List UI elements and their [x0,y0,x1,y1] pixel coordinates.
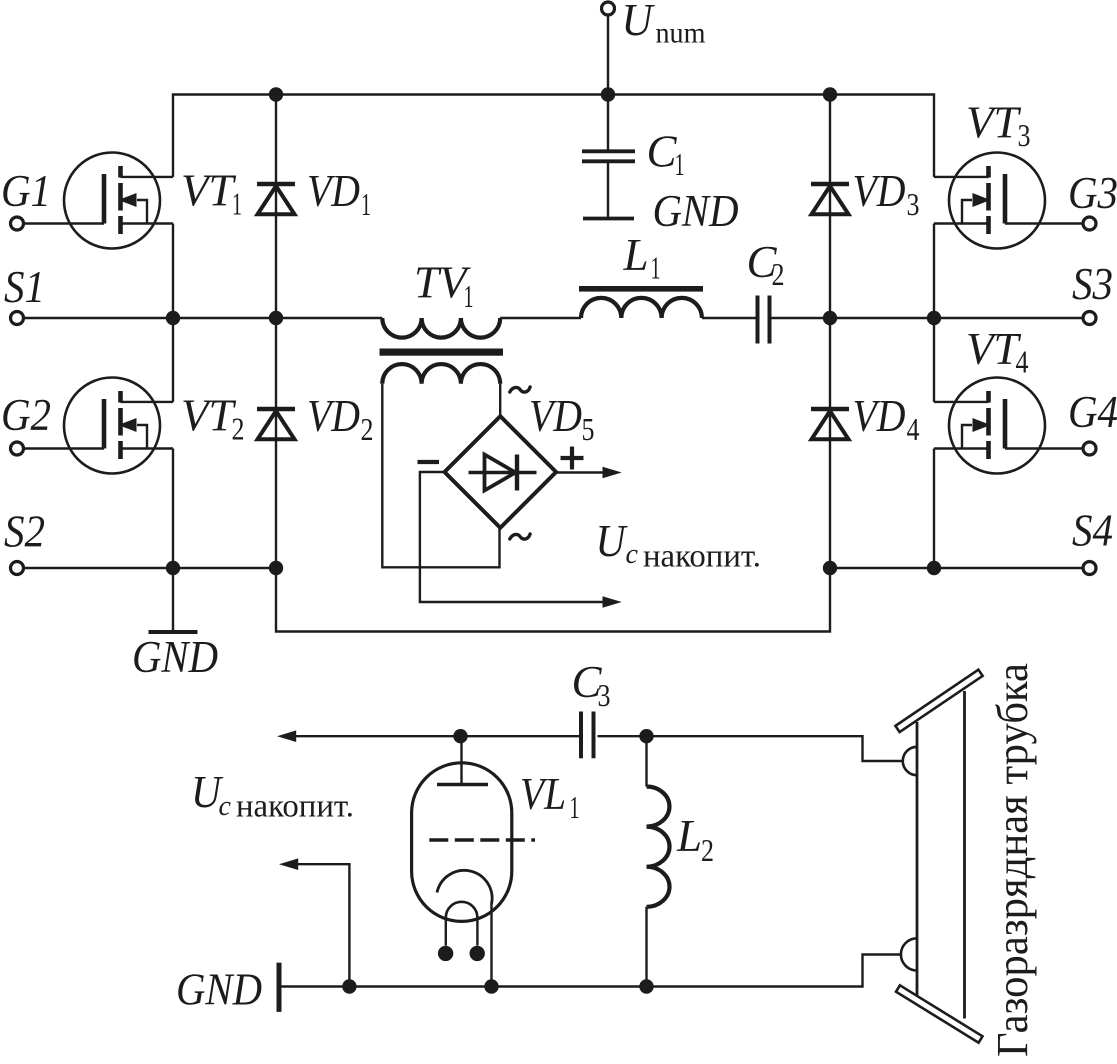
transistor VT4 [934,378,1045,474]
terminal S4 [1083,562,1096,575]
svg-text:VT: VT [181,166,236,216]
node S1 rail / VT1 [166,311,180,325]
label C2 [747,237,785,292]
svg-text:1: 1 [651,250,661,286]
wire G1 lead [23,222,104,224]
label VT4 [966,324,1029,380]
wire VT4 drain riser [933,318,935,402]
svg-text:2: 2 [361,411,374,447]
label VT2 [181,391,245,447]
svg-text:G2: G2 [1,390,51,440]
node S2 rail / VD2 [269,561,283,575]
label G2 [1,390,51,440]
svg-text:TV: TV [414,258,471,308]
label gas discharge tube [988,663,1037,1057]
transistor VT1 [64,153,173,249]
node return drop [342,979,356,993]
node S2 rail / VT2 [166,561,180,575]
svg-text:1: 1 [570,789,580,825]
transistor VT3 [934,153,1045,249]
wire VT1 drain drop is in top rail; source drop [172,224,174,319]
gas discharge tube [895,670,982,1043]
svg-text:2: 2 [772,256,785,292]
terminal U_num [602,2,615,15]
wire GND rail to tube bottom [281,955,900,987]
label S1 [4,262,45,312]
wire minus output arrow [420,472,622,608]
label L1 [623,230,661,286]
svg-text:VD: VD [853,391,906,441]
ground bar (left) [149,630,198,634]
svg-text:3: 3 [907,186,920,222]
svg-text:2: 2 [701,832,714,868]
wire GND stub [172,568,174,631]
terminal S3 [1083,312,1096,325]
svg-text:1: 1 [361,186,371,222]
wire VT4 source drop [933,449,935,569]
label S2 [4,507,45,557]
svg-text:4: 4 [907,411,920,447]
label TV1 [414,258,474,315]
label VD5 [529,391,595,447]
wire top rail with end drops [173,95,934,177]
label C3 [572,657,611,713]
wire C1 bottom lead [607,163,609,217]
node S3 rail / VT3 [927,311,941,325]
label VD1 [307,166,371,222]
svg-text:S2: S2 [4,507,45,557]
svg-text:U: U [596,516,628,566]
diode VD1 [257,95,295,319]
svg-text:Газоразрядная трубка: Газоразрядная трубка [988,663,1037,1057]
svg-text:1: 1 [675,146,685,182]
svg-text:VD: VD [529,391,582,441]
node top rail / VD1 [269,87,283,101]
label G4 [1068,387,1117,437]
label VD2 [307,391,374,447]
diode VD3 [811,95,849,319]
svg-text:накопит.: накопит. [643,539,761,575]
svg-text:VD: VD [307,166,360,216]
svg-text:3: 3 [598,677,611,713]
svg-text:VL: VL [520,769,566,819]
svg-text:L: L [623,230,649,280]
svg-text:VT: VT [181,391,236,441]
diode VD4 [811,318,849,568]
svg-text:GND: GND [132,632,218,682]
label ~ bottom [510,534,530,539]
node L2 bottom [639,979,653,993]
svg-text:G4: G4 [1068,387,1117,437]
terminal S1 [11,312,24,325]
svg-text:G1: G1 [1,166,51,216]
svg-text:VT: VT [966,98,1021,148]
wire S1 rail [23,317,382,319]
wire U_num feed [607,15,609,95]
wire TV1 secondary left return [382,384,499,568]
inductor L1 [579,286,703,318]
label L2 [676,811,714,868]
terminal G2 [11,442,24,455]
inductor L2 [647,736,670,986]
node L2 top [639,729,653,743]
label U_num [622,0,706,50]
ground bar under C1 [583,217,634,221]
diode VD2 [257,318,295,568]
wire C3 to tube top [598,736,903,761]
svg-text:c: c [626,539,639,570]
label S3 [1072,259,1113,309]
svg-text:4: 4 [1016,344,1029,380]
svg-text:2: 2 [232,411,245,447]
label G3 [1068,168,1117,218]
svg-text:VD: VD [307,391,360,441]
svg-text:1: 1 [464,278,474,314]
label G1 [1,166,51,216]
ground bar (lower) [277,963,282,1012]
wire bottom rail [276,568,830,632]
wire rail L1 to C2 [702,317,756,319]
svg-text:U: U [622,0,655,45]
label S4 [1072,506,1113,556]
label C1 [647,127,685,183]
node VL1 anode tap [453,729,467,743]
label plus [561,447,584,470]
tube VL1 [412,736,535,986]
bridge rectifier VD5 [445,416,557,528]
capacitor C2 [758,296,770,344]
wire lower feed with left arrow [277,730,579,742]
svg-text:c: c [219,791,232,822]
wire G2 lead [23,447,104,449]
label VL1 [520,769,580,825]
node top rail / VD3 [823,87,837,101]
node S4 rail / VT4 [927,561,941,575]
capacitor C3 [581,712,594,759]
wire VT2 source drop [172,449,174,569]
wire S4 rail [830,567,1083,569]
svg-text:L: L [676,811,702,861]
svg-text:VD: VD [853,166,906,216]
svg-text:S3: S3 [1072,259,1113,309]
svg-text:num: num [656,17,706,50]
transformer TV1 [380,318,504,384]
label VD3 [853,166,920,222]
label ~ top [510,387,530,392]
svg-text:накопит.: накопит. [236,789,354,825]
wire plus output arrow [556,467,622,479]
label U_c nakopit (lower) [191,767,354,825]
wire VT2 drain riser [172,318,174,402]
node top rail / C1 [601,87,615,101]
terminal G4 [1083,442,1096,455]
wire G3 lead [1005,222,1083,224]
svg-text:GND: GND [176,965,262,1015]
label VT1 [181,166,242,222]
wire TV1 secondary right lead [499,384,501,417]
wire G4 lead [1005,447,1083,449]
svg-text:3: 3 [1018,117,1031,153]
wire C1 top lead [607,95,609,150]
label minus [418,460,440,464]
wire rail TV1 to L1 [500,317,581,319]
terminal G1 [11,217,24,230]
svg-text:G3: G3 [1068,168,1117,218]
node S3 rail / VD3 [823,311,837,325]
svg-text:S1: S1 [4,262,45,312]
wire rail C2 to S3 [771,317,1083,319]
node VL1 cathode [484,979,498,993]
svg-text:C: C [647,127,678,177]
terminal G3 [1083,217,1096,230]
label VD4 [853,391,920,447]
label VT3 [966,98,1031,154]
label GND (top) [653,186,739,236]
capacitor C1 [582,151,635,161]
label GND (lower) [176,965,262,1015]
node S1 rail / VD1 [269,311,283,325]
svg-text:5: 5 [582,411,595,447]
svg-text:GND: GND [653,186,739,236]
svg-text:1: 1 [232,186,242,222]
wire lower return with left arrow [279,858,349,986]
wire VT3 source drop [933,224,935,319]
transistor VT2 [64,378,173,474]
label U_c nakopit (upper) [596,516,762,575]
wire S2 rail [23,567,276,569]
svg-text:S4: S4 [1072,506,1113,556]
svg-text:VT: VT [966,324,1021,374]
terminal S2 [11,562,24,575]
label GND (left) [132,632,218,682]
node S4 rail / VD4 [823,561,837,575]
